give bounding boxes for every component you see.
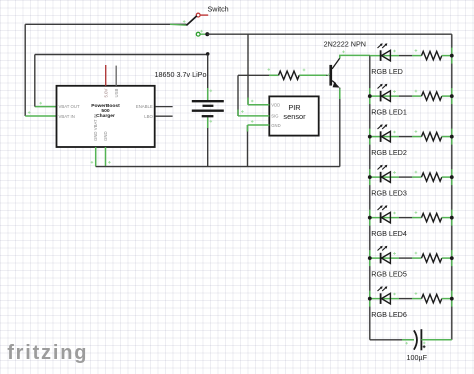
wire resistor to right bus [442,136,452,138]
wire bus to LED RGB LED1 [370,95,399,97]
wire switch output to right bus [207,33,451,35]
IC PowerBoost 500 Charger body [57,86,155,147]
svg-text:USB: USB [114,89,119,98]
capacitor C1 100uF [414,330,417,349]
node LED bus junction row 6 [368,256,372,260]
LED RGB LED1 [380,91,382,102]
LED RGB LED [380,50,382,61]
wire VBAT OUT to battery + (horizontal) [35,54,208,56]
node right bus junction row 5 [450,216,454,220]
node LED bus junction row 3 [368,135,372,139]
node right bus junction row 2 [450,94,454,98]
switch throw terminal (green) [196,32,200,36]
wire battery - to ground rail [207,117,209,167]
wire resistor to right bus [442,176,452,178]
svg-text:RGB LED: RGB LED [371,67,403,76]
node switch output junction [205,32,209,36]
svg-text:100µF: 100µF [407,353,428,362]
wire VBAT OUT vertical up [34,55,36,107]
node LED bus junction row 2 [368,94,372,98]
svg-text:RGB LED3: RGB LED3 [371,189,407,198]
svg-text:RGB LED1: RGB LED1 [371,108,407,117]
resistor row 5 [422,213,442,221]
svg-text:SIG: SIG [271,114,278,119]
wire LED RGB LED1 to resistor [399,95,412,97]
wire LED RGB LED3 to resistor [399,176,412,178]
wire from switch common to VBAT IN (top horizontal) [25,23,186,25]
wire bus to LED RGB LED2 [370,136,399,138]
svg-text:Switch: Switch [208,5,229,14]
svg-text:GND: GND [103,131,108,141]
node LED bus junction row 4 [368,175,372,179]
transistor Q1 2N2222 [329,65,332,86]
node battery + junction [206,52,210,56]
pin USB (gray stub on top) [115,66,117,86]
wire LED RGB LED5 to resistor [399,257,412,259]
wire LED bus bottom to capacitor [370,339,414,341]
wire GND pin 2 to ground rail [105,147,107,167]
node LED bus junction row 5 [368,216,372,220]
resistor row 7 [422,294,442,302]
wire LED RGB LED2 to resistor [399,136,412,138]
LED RGB LED3 [380,172,382,183]
wire VBAT OUT horizontal (green) [35,106,57,108]
wire bus to LED RGB LED [370,55,399,57]
svg-text:VDD: VDD [271,102,280,107]
wire SIG to base resistor [238,115,269,117]
LED RGB LED5 [380,253,382,264]
wire GND pin 1 to ground rail [95,147,97,167]
wire capacitor to right bus [421,339,451,341]
wire resistor to right bus [442,95,452,97]
wire bus to LED RGB LED3 [370,176,399,178]
svg-text:5.0V: 5.0V [103,89,108,98]
node right bus junction row 4 [450,175,454,179]
wire resistor to right bus [442,55,452,57]
wire LED RGB LED6 to resistor [399,298,412,300]
wire LED anode bus (left vertical) [369,55,371,339]
wire emitter to ground rail [339,88,341,167]
LED RGB LED2 [380,131,382,142]
resistor row 1 [422,51,442,59]
switch lever [186,16,196,26]
svg-text:RGB LED5: RGB LED5 [371,270,407,279]
resistor row 2 [422,92,442,100]
wire resistor to right bus [442,257,452,259]
LED RGB LED4 [380,212,382,223]
wire SIG junction to base resistor [238,74,279,76]
node LED bus junction row 7 [368,297,372,301]
wire bus to LED RGB LED4 [370,217,399,219]
svg-text:LBO: LBO [144,114,153,119]
node right bus junction row 3 [450,135,454,139]
svg-text:ENABLE: ENABLE [136,104,153,109]
svg-text:18650 3.7v LiPo: 18650 3.7v LiPo [155,70,207,79]
resistor row 4 [422,173,442,181]
wire LED RGB LED4 to resistor [399,217,412,219]
wire VBAT IN horizontal (green) [25,115,56,117]
svg-text:VBAT OUT: VBAT OUT [59,104,80,109]
svg-text:RGB LED6: RGB LED6 [371,310,407,319]
wire bus to LED RGB LED6 [370,298,399,300]
resistor (base) [279,71,300,79]
svg-text:VBAT IN: VBAT IN [59,114,75,119]
svg-text:RGB LED2: RGB LED2 [371,148,407,157]
wire PIR GND to ground rail [248,124,270,126]
wire bus to LED RGB LED5 [370,257,399,259]
svg-text:Charger: Charger [96,113,115,119]
resistor row 3 [422,132,442,140]
LED RGB LED6 [380,293,382,304]
wire resistor to right bus [442,217,452,219]
PIR sensor body [269,96,318,135]
wire ground rail [96,166,340,168]
node right bus junction row 6 [450,256,454,260]
wire collector up to LED bus [340,55,370,58]
svg-text:fritzing: fritzing [7,342,88,364]
wire battery + vertical [207,55,209,101]
wire resistor to right bus [442,298,452,300]
svg-text:GND VBAT IN: GND VBAT IN [93,114,98,141]
switch throw terminal (red) [196,13,200,17]
wire VDD from switch rail [247,34,249,105]
svg-text:2N2222 NPN: 2N2222 NPN [324,39,366,48]
svg-text:GND: GND [271,123,280,128]
wire LED RGB LED to resistor [399,55,412,57]
node right bus junction row 1 [450,54,454,58]
battery symbol [192,100,224,102]
svg-text:sensor: sensor [283,112,306,121]
pin 5.0V (red stub on top) [105,65,107,86]
svg-text:PIR: PIR [288,103,300,112]
resistor row 6 [422,254,442,262]
svg-text:RGB LED4: RGB LED4 [371,229,407,238]
wire right bus vertical [451,34,453,340]
node right bus junction row 7 [450,297,454,301]
wire left vertical down to VBAT IN [24,24,26,116]
wire base resistor to transistor base [299,74,329,76]
